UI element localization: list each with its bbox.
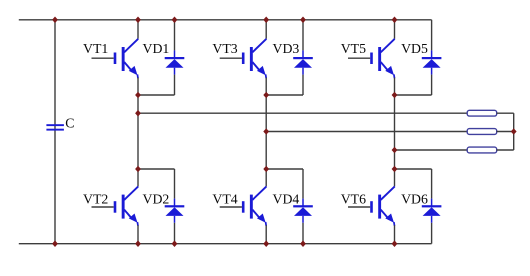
wire: VD1 horizontal tie to leg 1 midpoint — [138, 94, 175, 96]
junction: bottom rail / VT2 emitter — [135, 240, 141, 247]
junction: leg 1 / VD2 tie — [135, 166, 141, 173]
svg-text:VD4: VD4 — [273, 192, 300, 207]
diode VD4 (freewheel, lower leg 2) — [293, 199, 313, 223]
wire: VD5 lead from top rail — [431, 20, 433, 51]
wire: VT2 gate lead — [92, 206, 114, 208]
junction: top rail / VD1 — [172, 17, 178, 24]
wire: VT5 gate lead — [348, 57, 370, 59]
diode VD5 (freewheel, upper leg 3) — [422, 50, 442, 74]
diode VD1 (freewheel, upper leg 1) — [165, 50, 185, 74]
transistor VT6 (IGBT, lower leg 3) — [370, 186, 395, 225]
wire: leg 2 midpoint vertical — [265, 78, 267, 187]
wire: phase C resistor to star point — [497, 149, 514, 151]
svg-text:VT6: VT6 — [341, 192, 366, 207]
diode VD2 (freewheel, lower leg 1) — [165, 199, 185, 223]
junction: bottom rail / VD4 — [300, 240, 306, 247]
wire: phase C output line — [395, 149, 468, 151]
wire: VD1 lead to midpoint junction — [174, 75, 176, 95]
transistor VT2 (IGBT, lower leg 1) — [114, 186, 139, 225]
wire: VD3 lead to midpoint junction — [302, 75, 304, 95]
diode VD3 (freewheel, upper leg 2) — [293, 50, 313, 74]
transistor VT5 (IGBT, upper leg 3) — [370, 39, 395, 78]
wire: positive DC rail (top bus) — [19, 19, 432, 21]
wire: VD4 horizontal tie to leg 2 — [266, 168, 303, 170]
transistor VT4 (IGBT, lower leg 2) — [242, 186, 267, 225]
transistor VT3 (IGBT, upper leg 2) — [242, 39, 267, 78]
svg-text:VD3: VD3 — [273, 41, 300, 56]
transistor VT1 (IGBT, upper leg 1) — [114, 39, 139, 78]
resistor: phase C load — [467, 147, 497, 153]
wire: VT3 collector lead from top rail — [265, 20, 267, 39]
junction: leg 2 midpoint (VD3 tie) — [263, 92, 269, 99]
wire: VT2 emitter lead to bottom rail — [137, 225, 139, 244]
junction: cap / top rail — [52, 17, 58, 24]
wire: VT4 gate lead — [220, 206, 242, 208]
svg-text:VT3: VT3 — [212, 41, 237, 56]
wire: VD2 horizontal tie to leg 1 — [138, 168, 175, 170]
wire: VD4 lead from midpoint tie — [302, 169, 304, 199]
resistor: phase B load — [467, 129, 497, 135]
wire: negative DC rail (bottom bus) — [19, 243, 432, 245]
wire: VT6 emitter lead to bottom rail — [394, 225, 396, 244]
svg-text:VD2: VD2 — [143, 192, 170, 207]
wire: VT4 emitter lead to bottom rail — [265, 225, 267, 244]
junction: leg 1 midpoint (VD1 tie) — [135, 92, 141, 99]
junction: leg 3 midpoint (VD5 tie) — [392, 92, 398, 99]
capacitor C — [46, 124, 64, 130]
wire: VD5 lead to midpoint junction — [431, 75, 433, 95]
wire: phase A output line — [138, 112, 467, 114]
junction: top rail / VT1 collector — [135, 17, 141, 24]
wire: VT3 gate lead — [220, 57, 242, 59]
svg-text:VT1: VT1 — [83, 41, 108, 56]
svg-text:VD1: VD1 — [143, 41, 170, 56]
junction: bottom rail / VD2 — [172, 240, 178, 247]
junction: bottom rail / VT4 emitter — [263, 240, 269, 247]
resistor: phase A load — [467, 110, 497, 116]
wire: star-point vertical — [513, 113, 515, 150]
wire: leg 1 midpoint vertical — [137, 78, 139, 187]
diode VD6 (freewheel, lower leg 3) — [422, 199, 442, 223]
wire: phase B resistor to star point — [497, 131, 514, 133]
svg-text:VT5: VT5 — [341, 41, 366, 56]
wire: VT1 gate lead — [92, 57, 114, 59]
junction: leg 2 / VD4 tie — [263, 166, 269, 173]
svg-text:VD5: VD5 — [401, 41, 428, 56]
junction: bottom rail / VT6 emitter — [392, 240, 398, 247]
wire: VT1 collector lead from top rail — [137, 20, 139, 39]
svg-text:C: C — [65, 116, 74, 131]
junction: top rail / VT5 collector — [392, 17, 398, 24]
junction: cap / bottom rail — [52, 240, 58, 247]
junction: top rail / VT3 collector — [263, 17, 269, 24]
wire: VT5 collector lead from top rail — [394, 20, 396, 39]
svg-text:VT2: VT2 — [83, 192, 108, 207]
wire: VD3 lead from top rail — [302, 20, 304, 51]
wire: DC-link capacitor branch — [54, 20, 56, 244]
wire: VD6 lead from midpoint tie — [431, 169, 433, 199]
wire: VD5 horizontal tie to leg 3 midpoint — [395, 94, 432, 96]
wire: VD2 lead to bottom rail — [174, 223, 176, 244]
wire: VD6 horizontal tie to leg 3 — [395, 168, 432, 170]
wire: phase A resistor to star point — [497, 112, 514, 114]
junction: phase A tap on leg 1 — [135, 110, 141, 117]
wire: VD4 lead to bottom rail — [302, 223, 304, 244]
junction: star point — [511, 128, 517, 135]
junction: phase B tap on leg 2 — [263, 128, 269, 135]
svg-text:VT4: VT4 — [212, 192, 237, 207]
wire: VD6 lead to bottom rail — [431, 223, 433, 244]
wire: VD1 lead from top rail — [174, 20, 176, 51]
wire: phase B output line — [266, 131, 467, 133]
svg-text:VD6: VD6 — [401, 192, 428, 207]
junction: top rail / VD3 — [300, 17, 306, 24]
wire: VD2 lead from midpoint tie — [174, 169, 176, 199]
junction: leg 3 / VD6 tie — [392, 166, 398, 173]
wire: leg 3 midpoint vertical — [394, 78, 396, 187]
junction: phase C tap on leg 3 — [392, 147, 398, 154]
wire: VD3 horizontal tie to leg 2 midpoint — [266, 94, 303, 96]
wire: VT6 gate lead — [348, 206, 370, 208]
